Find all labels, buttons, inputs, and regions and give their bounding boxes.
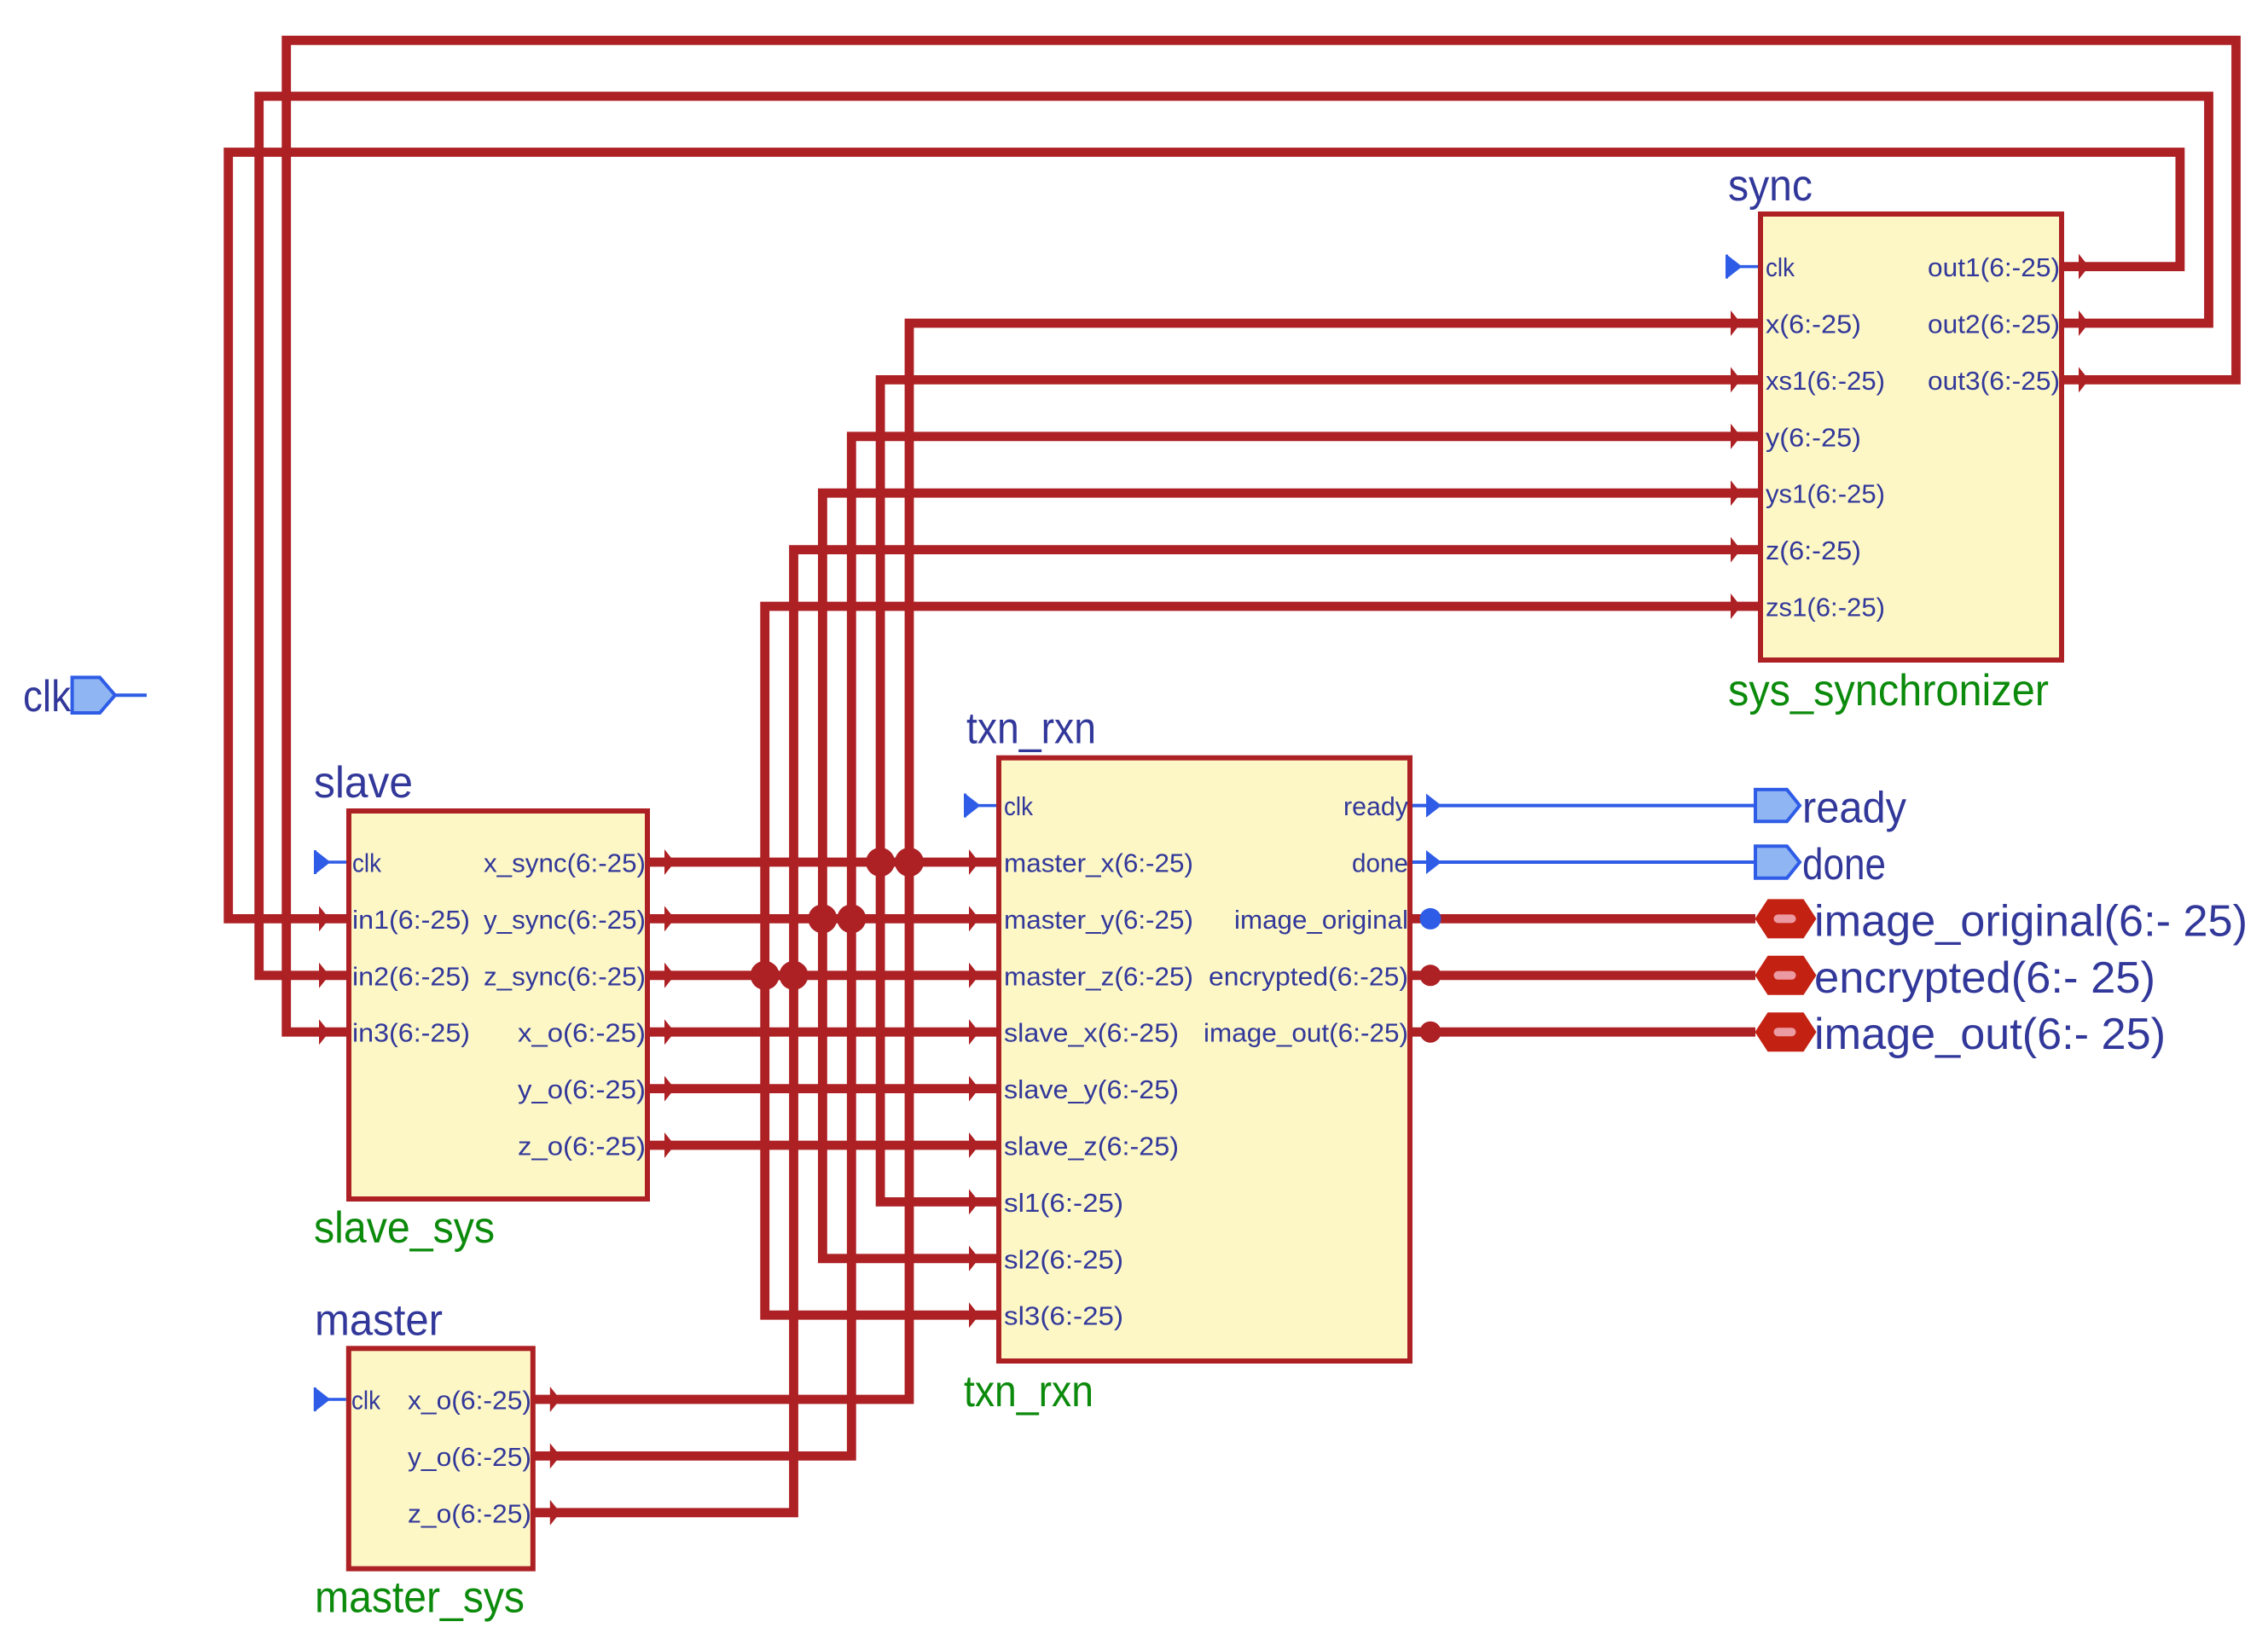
svg-text:txn_rxn: txn_rxn <box>964 1367 1093 1416</box>
arrowhead into txn.sl3 <box>969 1302 979 1328</box>
svg-text:slave_z(6:-25): slave_z(6:-25) <box>1004 1132 1179 1161</box>
arrowhead out of master.z_o <box>550 1500 560 1526</box>
wire net v6 master.x_o/x <box>533 323 1760 1399</box>
svg-text:sl1(6:-25): sl1(6:-25) <box>1004 1188 1123 1218</box>
svg-text:ys1(6:-25): ys1(6:-25) <box>1766 479 1885 509</box>
wire net txn.image_original <box>1410 914 1755 924</box>
svg-text:slave: slave <box>314 758 413 808</box>
svg-text:clk: clk <box>1766 252 1795 282</box>
svg-text:x(6:-25): x(6:-25) <box>1766 310 1861 339</box>
clock input stub txn_rxn.clk <box>966 794 997 818</box>
svg-text:in3(6:-25): in3(6:-25) <box>352 1018 470 1048</box>
wire net v3 sl2/ys1 <box>822 493 1760 1259</box>
svg-text:encrypted(6:-25): encrypted(6:-25) <box>1209 961 1408 991</box>
wire net v2 master.z_o/z <box>533 550 1760 1513</box>
svg-text:slave_sys: slave_sys <box>314 1203 495 1253</box>
svg-text:ready: ready <box>1343 791 1408 821</box>
arrowhead out of txn.done (blue) <box>1426 850 1441 874</box>
svg-text:clk: clk <box>1004 791 1033 821</box>
port marker pentagon done <box>1755 846 1800 877</box>
wire net slave.x_sync -> txn.master_x <box>647 858 999 867</box>
wire net slave.x_o -> txn.slave_x <box>647 1028 999 1037</box>
junction dot x net at (v6,x_sync row) <box>895 848 924 877</box>
arrowhead out of txn.ready (blue) <box>1426 794 1441 818</box>
arrowhead into sync.z <box>1731 537 1741 563</box>
module block slave (slave_sys) <box>349 811 647 1199</box>
clock input stub slave.clk <box>316 850 347 874</box>
svg-text:done: done <box>1802 840 1886 889</box>
svg-text:image_original: image_original <box>1234 905 1408 935</box>
svg-text:master_sys: master_sys <box>315 1573 525 1623</box>
svg-text:sl2(6:-25): sl2(6:-25) <box>1004 1244 1123 1274</box>
arrowhead out of slave.x_sync <box>664 849 675 875</box>
junction dot txn.image_out port dot <box>1420 1022 1441 1043</box>
svg-text:y_o(6:-25): y_o(6:-25) <box>518 1074 646 1104</box>
module block sync (sys_synchronizer) <box>1760 214 2062 660</box>
svg-text:x_o(6:-25): x_o(6:-25) <box>518 1018 646 1048</box>
arrowhead out of master.x_o <box>550 1387 560 1412</box>
output terminal octagon image_original <box>1755 899 1817 938</box>
arrowhead into txn.sl2 <box>969 1246 979 1271</box>
svg-text:clk: clk <box>352 848 381 878</box>
svg-text:clk: clk <box>23 672 72 721</box>
svg-text:xs1(6:-25): xs1(6:-25) <box>1766 366 1885 396</box>
wire net out3 -> slave.in3 <box>287 40 2236 1032</box>
svg-text:sys_synchronizer: sys_synchronizer <box>1728 666 2049 715</box>
svg-text:txn_rxn: txn_rxn <box>966 704 1096 754</box>
wire net slave.z_sync -> txn.master_z <box>647 970 999 980</box>
arrowhead into txn.master_x <box>969 849 979 875</box>
wire net txn.done <box>1410 860 1755 864</box>
svg-text:x_sync(6:-25): x_sync(6:-25) <box>484 848 646 878</box>
svg-text:sl3(6:-25): sl3(6:-25) <box>1004 1301 1123 1331</box>
junction dot zs1 net at (v1,z_sync row) <box>751 961 780 990</box>
junction dot y net at (v4,y_sync row) <box>837 904 866 933</box>
wire net slave.y_sync -> txn.master_y <box>647 914 999 924</box>
svg-text:image_out(6:- 25): image_out(6:- 25) <box>1814 1010 2166 1059</box>
arrowhead into slave.in1 <box>319 906 329 931</box>
arrowhead out of sync.out1 <box>2079 254 2089 280</box>
module block txn_rxn <box>999 758 1410 1361</box>
svg-text:y(6:-25): y(6:-25) <box>1766 422 1861 452</box>
arrowhead into sync.zs1 <box>1731 594 1741 619</box>
svg-text:z(6:-25): z(6:-25) <box>1766 536 1861 565</box>
arrowhead out of slave.z_sync <box>664 963 675 988</box>
svg-text:encrypted(6:- 25): encrypted(6:- 25) <box>1814 953 2155 1003</box>
wire net out1 -> slave.in1 <box>229 153 2180 919</box>
svg-text:sync: sync <box>1728 161 1813 211</box>
svg-text:y_sync(6:-25): y_sync(6:-25) <box>484 905 646 935</box>
wire net v1 sl3/zs1 <box>765 606 1760 1315</box>
arrowhead out of slave.y_sync <box>664 906 675 931</box>
arrowhead out of sync.out2 <box>2079 310 2089 336</box>
svg-text:master_x(6:-25): master_x(6:-25) <box>1004 848 1193 878</box>
wire net slave.z_o -> txn.slave_z <box>647 1141 999 1150</box>
svg-text:image_out(6:-25): image_out(6:-25) <box>1204 1018 1408 1048</box>
port marker pentagon ready <box>1755 790 1800 821</box>
svg-text:slave_y(6:-25): slave_y(6:-25) <box>1004 1074 1179 1104</box>
svg-text:image_original(6:- 25): image_original(6:- 25) <box>1814 896 2248 946</box>
wire net v4 master.y_o/y <box>533 437 1760 1457</box>
arrowhead out of slave.z_o <box>664 1132 675 1158</box>
arrowhead into txn.master_z <box>969 963 979 988</box>
arrowhead into sync.y <box>1731 424 1741 449</box>
svg-text:in2(6:-25): in2(6:-25) <box>352 961 470 991</box>
arrowhead into txn.slave_z <box>969 1132 979 1158</box>
svg-text:z_sync(6:-25): z_sync(6:-25) <box>484 961 646 991</box>
arrowhead out of sync.out3 <box>2079 367 2089 392</box>
arrowhead into txn.slave_x <box>969 1019 979 1045</box>
arrowhead into sync.ys1 <box>1731 480 1741 506</box>
svg-text:y_o(6:-25): y_o(6:-25) <box>408 1442 531 1472</box>
svg-text:z_o(6:-25): z_o(6:-25) <box>518 1132 646 1161</box>
junction dot txn.encrypted port dot <box>1420 964 1441 986</box>
svg-text:master_y(6:-25): master_y(6:-25) <box>1004 905 1193 935</box>
wire net txn.encrypted <box>1410 970 1755 980</box>
svg-text:zs1(6:-25): zs1(6:-25) <box>1766 593 1885 623</box>
wire net txn.image_out <box>1410 1028 1755 1037</box>
svg-text:ready: ready <box>1802 784 1906 833</box>
arrowhead into slave.in2 <box>319 963 329 988</box>
output terminal octagon image_out <box>1755 1012 1817 1051</box>
junction dot xs1 net at (v5,x_sync row) <box>866 848 895 877</box>
top-level input port clk <box>73 677 147 713</box>
wire net slave.y_o -> txn.slave_y <box>647 1084 999 1093</box>
svg-text:clk: clk <box>351 1386 380 1416</box>
svg-text:out2(6:-25): out2(6:-25) <box>1928 310 2060 339</box>
wire net out2 -> slave.in2 <box>259 96 2209 976</box>
arrowhead into txn.sl1 <box>969 1189 979 1214</box>
svg-text:z_o(6:-25): z_o(6:-25) <box>408 1498 531 1528</box>
clock input stub sync.clk <box>1727 255 1759 279</box>
svg-text:in1(6:-25): in1(6:-25) <box>352 905 470 935</box>
svg-text:master_z(6:-25): master_z(6:-25) <box>1004 961 1193 991</box>
junction dot z net at (v2,z_sync row) <box>780 961 809 990</box>
junction dot txn.image_original port dot (blue) <box>1420 908 1441 930</box>
wire net v5 sl1/xs1 <box>880 379 1760 1202</box>
arrowhead into txn.slave_y <box>969 1076 979 1102</box>
module block master (master_sys) <box>349 1348 533 1568</box>
svg-text:slave_x(6:-25): slave_x(6:-25) <box>1004 1018 1179 1048</box>
junction dot ys1 net at (v3,y_sync row) <box>808 904 837 933</box>
svg-text:out1(6:-25): out1(6:-25) <box>1928 252 2060 282</box>
svg-text:master: master <box>315 1295 443 1345</box>
arrowhead into txn.master_y <box>969 906 979 931</box>
arrowhead into sync.xs1 <box>1731 367 1741 392</box>
svg-text:x_o(6:-25): x_o(6:-25) <box>408 1386 531 1416</box>
arrowhead out of master.y_o <box>550 1443 560 1468</box>
arrowhead into slave.in3 <box>319 1019 329 1045</box>
clock input stub master.clk <box>315 1387 346 1411</box>
arrowhead into sync.x <box>1731 310 1741 336</box>
wire net txn.ready <box>1410 804 1755 808</box>
svg-text:done: done <box>1352 848 1408 878</box>
output terminal octagon encrypted <box>1755 956 1817 995</box>
svg-text:out3(6:-25): out3(6:-25) <box>1928 366 2060 396</box>
arrowhead out of slave.x_o <box>664 1019 675 1045</box>
arrowhead out of slave.y_o <box>664 1076 675 1102</box>
